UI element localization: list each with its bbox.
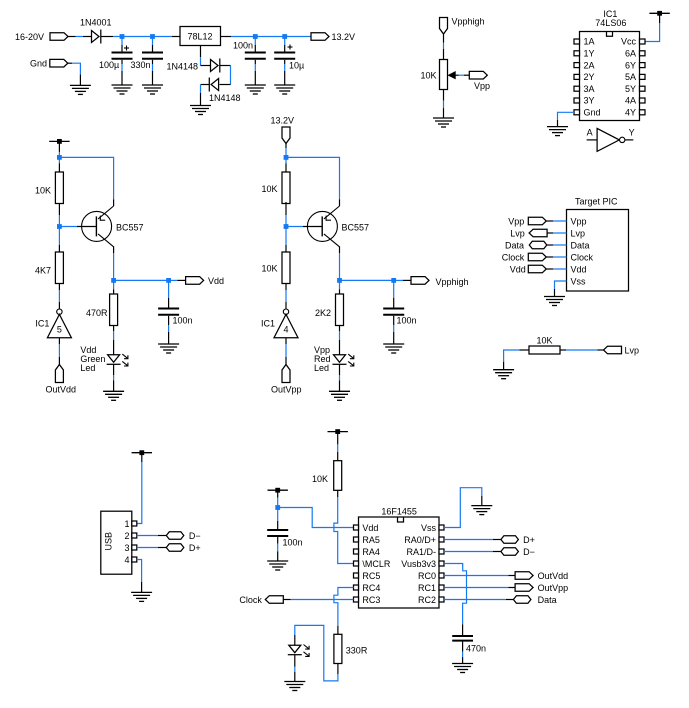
capacitor C2 330n (142, 53, 163, 59)
svg-text:100n: 100n (233, 41, 253, 51)
svg-text:78L12: 78L12 (187, 32, 212, 42)
svg-text:Vpp: Vpp (474, 81, 490, 91)
wire rail to pin1 (137, 453, 142, 524)
label OutVpp (271, 385, 302, 395)
label Data net (538, 595, 557, 605)
label 100u (99, 60, 119, 70)
tag Gnd (50, 59, 68, 67)
wire rail to Vcc (645, 13, 659, 41)
label R5 10K (262, 264, 278, 274)
wire wiper to Vpp tag (455, 74, 469, 76)
wire pin4 to ground (137, 560, 142, 593)
regulator U2 78L12 (180, 27, 221, 46)
svg-text:470n: 470n (466, 644, 486, 654)
ground USB (131, 592, 152, 601)
svg-text:Data: Data (571, 240, 590, 250)
wire R7 to Lvp tag (560, 349, 604, 351)
svg-text:RC3: RC3 (362, 595, 380, 605)
wire LED1 to ground (113, 364, 115, 391)
svg-text:Vcc: Vcc (621, 37, 637, 47)
ground R7 (493, 370, 514, 379)
wire C3 lead (254, 37, 256, 52)
svg-text:Vss: Vss (421, 523, 437, 533)
svg-text:Vss: Vss (571, 276, 587, 286)
wire R4 to base node (285, 202, 287, 227)
wire pin3 to D+ (137, 547, 167, 549)
svg-text:10K: 10K (262, 264, 278, 274)
diode D1 1N4001 (92, 30, 101, 44)
wire node to R3 (113, 280, 115, 294)
junction right rail (284, 155, 289, 160)
tag D+ usb (166, 544, 184, 552)
tag Clock to PIC (528, 253, 546, 261)
ground LED3 (284, 682, 305, 691)
svg-text:Vpphigh: Vpphigh (436, 277, 469, 287)
wire Vss pic to ground (555, 281, 567, 297)
wire node to Vdd pin (278, 508, 354, 528)
label Vdd pic (510, 264, 526, 274)
wire R7 to ground (504, 350, 529, 370)
svg-text:Gnd: Gnd (584, 108, 601, 118)
tag D- net (501, 548, 519, 556)
ground 74LS06 (547, 127, 568, 136)
svg-text:74LS06: 74LS06 (595, 18, 626, 28)
wire pot to ground (443, 90, 445, 119)
ground LED2 (329, 391, 350, 400)
wire LED2 to ground (339, 364, 341, 391)
svg-text:4K7: 4K7 (35, 266, 51, 276)
power rail MCLR pullup (328, 429, 348, 434)
LED D5 Vpp red (333, 354, 354, 366)
label R1 10K (35, 186, 51, 196)
label C7 100n (283, 538, 303, 548)
svg-text:Vdd: Vdd (571, 264, 587, 274)
power rail left (49, 139, 69, 144)
potentiometer RV1 10K (440, 60, 448, 90)
svg-text:3: 3 (124, 543, 129, 553)
label Clock net (239, 595, 262, 605)
label + C4 (288, 45, 293, 50)
wire 16-20V tag to D1 (68, 36, 92, 38)
label Gnd (30, 59, 47, 69)
ground Target PIC (544, 297, 565, 306)
wire C2 lead (152, 37, 154, 52)
capacitor C8 470n (452, 636, 473, 641)
resistor R1 10K (55, 172, 63, 204)
svg-text:D−: D− (189, 531, 201, 541)
svg-text:Vdd: Vdd (362, 523, 378, 533)
pin labels 16F1455 (362, 523, 436, 605)
IC U3 16F1455 body (359, 517, 440, 608)
label 4 (283, 325, 288, 335)
svg-text:13.2V: 13.2V (271, 116, 295, 126)
wire RA0 to D+ (444, 539, 501, 541)
wire pin2 to D- (137, 535, 167, 537)
wire node to Q2 emitter (286, 157, 340, 206)
ground Vss 16F1455 (471, 506, 492, 515)
svg-text:1: 1 (124, 519, 129, 529)
svg-text:Y: Y (629, 128, 635, 138)
svg-text:2: 2 (124, 531, 129, 541)
svg-text:10K: 10K (312, 474, 328, 484)
label R4 10K (262, 184, 278, 194)
label 100n C3 (233, 41, 253, 51)
wire base node to R2 (58, 227, 60, 253)
pin labels 74LS06 (584, 37, 637, 118)
wire C1 to ground (121, 60, 123, 85)
svg-text:3Y: 3Y (584, 96, 595, 106)
tag Vpp to PIC (528, 217, 546, 225)
svg-text:RA4: RA4 (362, 547, 380, 557)
svg-text:Data: Data (505, 240, 524, 250)
wire R2 to inverter (58, 284, 60, 310)
wire 74LS06 Gnd (558, 112, 575, 126)
LED D4 Vdd green (107, 354, 128, 366)
wire node to R4 (285, 157, 287, 172)
wire D1 to 78L12 (101, 36, 180, 38)
svg-text:Data: Data (538, 595, 557, 605)
label Vpphigh tag (436, 277, 469, 287)
junction Q1 base (57, 224, 62, 229)
label IC1 gate5 (35, 319, 49, 329)
wire C4 to ground (284, 60, 286, 85)
svg-text:Led: Led (314, 363, 329, 373)
power rail 100n chip cap (268, 488, 288, 493)
label OutVdd net (538, 571, 569, 581)
junction Q2 collector node (337, 278, 342, 283)
wire node to R6 (339, 280, 341, 294)
svg-text:6Y: 6Y (625, 60, 636, 70)
label R9 330R (346, 646, 368, 656)
svg-text:13.2V: 13.2V (332, 32, 356, 42)
label USB rotated (104, 532, 114, 551)
label IC1 gate4 (261, 319, 275, 329)
ground C3 (245, 85, 266, 94)
wire C8 to ground (462, 642, 464, 664)
svg-text:RC0: RC0 (418, 571, 436, 581)
tag Clock net (265, 596, 283, 604)
tag Lvp to PIC (529, 229, 547, 237)
connector Target PIC box (567, 210, 629, 292)
wire Data pic (547, 244, 567, 246)
wire rail to cap node (277, 490, 279, 507)
svg-text:Lvp: Lvp (625, 346, 640, 356)
svg-text:2K2: 2K2 (315, 308, 331, 318)
label Vpp led2 (314, 345, 330, 355)
label OutVpp net (538, 583, 569, 593)
svg-text:Vpphigh: Vpphigh (452, 17, 485, 27)
svg-text:BC557: BC557 (342, 223, 370, 233)
wire C1 lead (121, 37, 123, 52)
svg-text:4: 4 (283, 325, 288, 335)
resistor R2 4K7 (55, 252, 63, 284)
junction node at C4 (282, 34, 287, 39)
label 13.2V (332, 32, 356, 42)
wire RC4 to R9 with jog (334, 588, 354, 635)
wire C5 to ground (168, 316, 170, 344)
ground Gnd (70, 85, 91, 94)
wire C6 to ground (393, 316, 395, 344)
junction Q1 collector node (111, 278, 116, 283)
wire to Vpphigh tag (394, 279, 411, 281)
label Target PIC (575, 197, 618, 207)
resistor R7 10K (529, 346, 560, 354)
label 74LS06 (595, 18, 626, 28)
label Vpp pic (508, 216, 524, 226)
wire LED3 to ground (294, 655, 296, 682)
svg-text:Led: Led (80, 363, 95, 373)
capacitor C1 100u (112, 53, 133, 59)
wire tag to pot (443, 33, 445, 60)
svg-text:10K: 10K (421, 71, 437, 81)
ground D3 (190, 106, 211, 115)
ground C2 (142, 85, 163, 94)
svg-text:16F1455: 16F1455 (381, 507, 417, 517)
connector USB box (101, 511, 132, 574)
junction node at C2 (150, 34, 155, 39)
wire RC1 to OutVpp (444, 587, 515, 589)
label R6 2K2 (315, 308, 331, 318)
wire 13.2V tag to node (285, 143, 287, 158)
label 10K lvp (537, 336, 553, 346)
svg-text:330R: 330R (346, 646, 368, 656)
tag D+ net (501, 536, 519, 544)
svg-text:3A: 3A (584, 84, 595, 94)
svg-text:USB: USB (104, 532, 114, 551)
label D- usb (189, 531, 201, 541)
svg-text:BC557: BC557 (116, 223, 144, 233)
wire Q1 collector (113, 246, 115, 280)
diode D3 1N4148 (209, 78, 218, 92)
capacitor C7 100n (267, 530, 288, 536)
svg-text:RC4: RC4 (362, 583, 380, 593)
junction node at C1 (120, 34, 125, 39)
wire RC2 to Data (444, 599, 513, 601)
wire RA1 to D- (444, 551, 501, 553)
wire Clock to RC3 (283, 599, 353, 601)
wire base node to R5 (285, 227, 287, 253)
op-amp IC1 gate5 inverter (47, 309, 71, 338)
wire Vpp pic (546, 220, 566, 222)
svg-text:Clock: Clock (502, 252, 525, 262)
wire C4 lead (284, 37, 286, 52)
wire RC0 to OutVdd (444, 575, 515, 577)
tag Vpphigh output (411, 277, 429, 285)
label Vdd led1 (80, 345, 96, 355)
pin numbers USB (124, 519, 129, 565)
tag Vpp wiper (469, 71, 487, 79)
label Vdd tag (208, 276, 224, 286)
label A inverter demo (587, 128, 593, 138)
svg-text:1N4148: 1N4148 (209, 93, 241, 103)
junction left rail (57, 155, 62, 160)
resistor R8 10K pullup (334, 461, 342, 491)
wire inverter to OutVpp tag (285, 338, 287, 365)
label Vpphigh pot (452, 17, 485, 27)
capacitor C6 100n (383, 309, 404, 315)
svg-text:IC1: IC1 (261, 319, 275, 329)
label Clock pic (502, 252, 525, 262)
svg-text:1A: 1A (584, 37, 595, 47)
tag OutVpp input (282, 365, 290, 383)
svg-text:OutVpp: OutVpp (271, 385, 302, 395)
ground C6 (383, 344, 404, 353)
LED D6 usb (288, 645, 309, 657)
pins 16F1455 (354, 525, 445, 602)
label BC557 Q1 (116, 223, 144, 233)
wire node to C7 (277, 508, 279, 530)
wire collector to Vdd net (114, 279, 169, 281)
svg-text:RC5: RC5 (362, 571, 380, 581)
svg-text:4: 4 (124, 555, 129, 565)
tag Vpphigh source (440, 18, 448, 35)
op-amp IC1 gate4 inverter (274, 309, 298, 338)
svg-text:10K: 10K (262, 184, 278, 194)
label Y inverter demo (629, 128, 635, 138)
transistor Q2 BC557 (307, 206, 339, 247)
svg-text:10µ: 10µ (289, 61, 304, 71)
label Led led2 (314, 363, 329, 373)
wire node to Q1 emitter (59, 157, 113, 206)
svg-text:2A: 2A (584, 60, 595, 70)
svg-text:4Y: 4Y (625, 108, 636, 118)
svg-text:2Y: 2Y (584, 72, 595, 82)
svg-text:RA5: RA5 (362, 535, 380, 545)
wire rail to node (58, 141, 60, 157)
wire C3 to ground (254, 60, 256, 85)
wire rail to R8 (337, 432, 339, 461)
svg-text:5Y: 5Y (625, 84, 636, 94)
label 1N4148 D3 (209, 93, 241, 103)
svg-text:10K: 10K (35, 186, 51, 196)
tag Data net (513, 596, 531, 604)
tag Vdd output (186, 277, 204, 285)
wire Lvp pic (547, 232, 566, 234)
label D- net (523, 547, 535, 557)
tag OutVdd net (515, 572, 533, 580)
tag D- usb (166, 532, 184, 540)
svg-text:5: 5 (57, 325, 62, 335)
pins 74LS06 (574, 39, 645, 115)
junction Vdd net cap node (166, 278, 171, 283)
wire C2 to ground (152, 60, 154, 85)
label 10u (289, 61, 304, 71)
svg-text:100n: 100n (283, 538, 303, 548)
wire R6 to LED2 (339, 326, 341, 355)
svg-text:100µ: 100µ (99, 60, 119, 70)
ground C8 (452, 664, 473, 673)
svg-text:OutVdd: OutVdd (538, 571, 569, 581)
resistor R6 2K2 (336, 294, 344, 326)
wire collector to Vpphigh net (340, 279, 394, 281)
svg-text:Vdd: Vdd (510, 264, 526, 274)
label OutVdd (46, 385, 77, 395)
label Led led1 (80, 363, 95, 373)
label + C1 (124, 46, 129, 51)
label 16F1455 (381, 507, 417, 517)
junction Q2 base (284, 224, 289, 229)
capacitor C4 10u (274, 53, 295, 59)
svg-text:4A: 4A (625, 96, 636, 106)
junction node at C3 (253, 34, 258, 39)
inverter demo symbol (587, 128, 634, 151)
wire 78L12 out (221, 36, 312, 38)
label Red led2 (314, 354, 331, 364)
wire R1 to base node (58, 204, 60, 227)
wire D3 to ground (201, 85, 210, 106)
svg-text:\MCLR: \MCLR (362, 559, 391, 569)
label C5 100n (173, 316, 193, 326)
diode D2 1N4148 (211, 59, 220, 73)
ground C5 (158, 344, 179, 353)
svg-text:D+: D+ (523, 535, 535, 545)
resistor R4 10K (282, 172, 290, 204)
svg-text:Vpp: Vpp (508, 216, 524, 226)
wiper arrow RV1 (448, 72, 455, 79)
label C6 100n (397, 316, 417, 326)
svg-text:Clock: Clock (239, 595, 262, 605)
resistor R5 10K (282, 252, 290, 284)
svg-text:RC1: RC1 (418, 583, 436, 593)
power rail 74LS06 (649, 11, 669, 16)
svg-text:470R: 470R (86, 308, 108, 318)
label R8 10K (312, 474, 328, 484)
svg-text:1N4001: 1N4001 (80, 18, 112, 28)
label IC1 74LS06 (603, 9, 617, 19)
label 16-20V input (15, 32, 44, 42)
svg-text:D−: D− (523, 547, 535, 557)
label C8 470n (466, 644, 486, 654)
tag OutVdd input (55, 365, 63, 383)
svg-text:RA0/D+: RA0/D+ (404, 535, 436, 545)
tag OutVpp net (515, 584, 533, 592)
label 1N4148 D2 (167, 61, 199, 71)
pins USB (132, 521, 137, 562)
IC U1 74LS06 body (580, 32, 640, 121)
wire D2 to D3 (220, 66, 231, 85)
svg-text:RA1/D-: RA1/D- (406, 547, 436, 557)
label pot 10K (421, 71, 437, 81)
svg-text:RC2: RC2 (418, 595, 436, 605)
wire Gnd tag to ground (68, 63, 81, 85)
wire node to R1 (58, 157, 60, 172)
svg-text:5A: 5A (625, 72, 636, 82)
label D+ net (523, 535, 535, 545)
resistor R9 330R (334, 634, 342, 663)
svg-text:Vpp: Vpp (571, 216, 587, 226)
label 330n (131, 60, 151, 70)
junction chip Vdd cap node (275, 505, 280, 510)
wire R3 to LED1 (113, 326, 115, 355)
label Data pic (505, 240, 524, 250)
wire C7 to ground (277, 537, 279, 561)
label 13.2V supply (271, 116, 295, 126)
wire 78L12 gnd pin (201, 46, 211, 66)
label Green led1 (80, 354, 105, 364)
pin labels Target PIC (571, 216, 594, 286)
wire inverter to OutVdd tag (58, 338, 60, 365)
wire to Vdd tag (169, 279, 186, 281)
label R2 4K7 (35, 266, 51, 276)
label Vpp pot (474, 81, 490, 91)
svg-text:Lvp: Lvp (571, 228, 586, 238)
svg-text:6A: 6A (625, 49, 636, 59)
wire R5 to inverter (285, 284, 287, 310)
svg-text:Lvp: Lvp (510, 228, 525, 238)
wire R9 to LED3 (295, 625, 338, 681)
capacitor C5 100n (158, 309, 179, 315)
tag Data to PIC (529, 241, 547, 249)
